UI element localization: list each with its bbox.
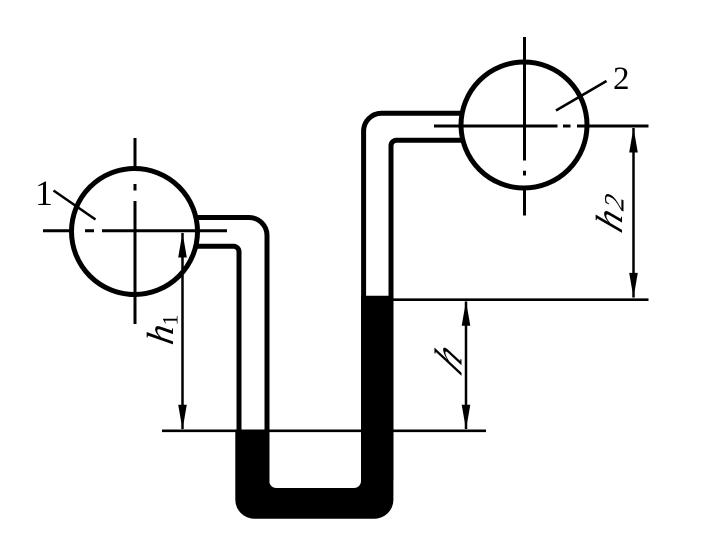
svg-text:1: 1 bbox=[157, 315, 182, 326]
svg-text:2: 2 bbox=[613, 61, 630, 97]
svg-text:1: 1 bbox=[35, 173, 53, 213]
